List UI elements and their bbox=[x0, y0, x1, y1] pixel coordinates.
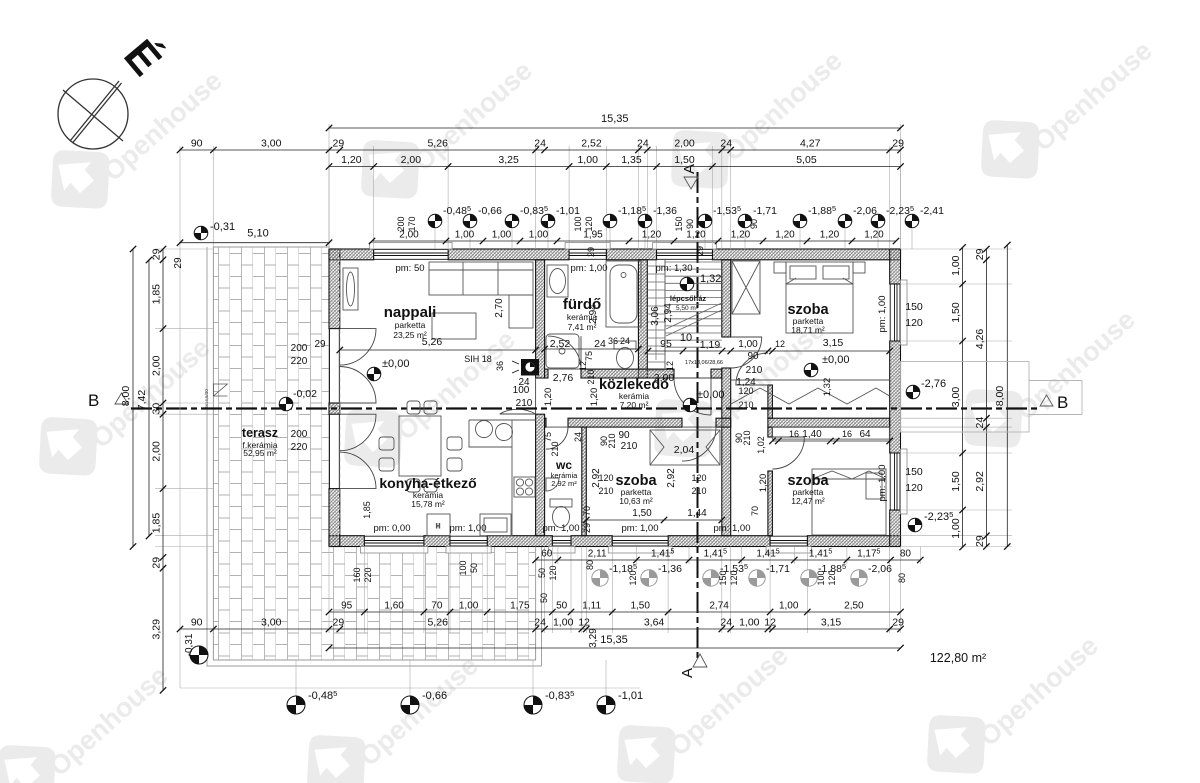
terrace paving area bbox=[213, 247, 535, 660]
svg-text:210: 210 bbox=[607, 433, 617, 448]
dim row bottom openings bbox=[326, 601, 904, 616]
svg-text:24: 24 bbox=[974, 417, 986, 429]
thin wall closet divider szobaT bbox=[768, 385, 773, 418]
level marker nappali bbox=[367, 358, 409, 381]
svg-text:1,00: 1,00 bbox=[529, 230, 549, 241]
svg-text:pm: 1,00: pm: 1,00 bbox=[622, 523, 659, 534]
dining table and chairs bbox=[379, 401, 462, 492]
szoba2 bed bbox=[812, 469, 886, 535]
wall under hallway bbox=[545, 418, 546, 427]
left exterior wall bbox=[329, 249, 340, 329]
marker B right bbox=[1040, 393, 1068, 412]
svg-text:12,47 m²: 12,47 m² bbox=[791, 496, 825, 506]
dim row top small bbox=[369, 230, 899, 245]
svg-text:±0,00: ±0,00 bbox=[697, 389, 724, 401]
furdo bathtub bbox=[606, 261, 641, 327]
svg-text:29: 29 bbox=[892, 617, 904, 629]
section line B-B bbox=[131, 407, 1040, 409]
svg-text:12: 12 bbox=[578, 617, 590, 629]
svg-text:1,50: 1,50 bbox=[950, 471, 962, 492]
svg-text:2,00: 2,00 bbox=[401, 154, 422, 166]
svg-text:5,26: 5,26 bbox=[422, 336, 443, 348]
svg-text:nappali: nappali bbox=[384, 304, 437, 321]
right wall windows bbox=[890, 284, 901, 341]
svg-text:60: 60 bbox=[541, 549, 553, 560]
svg-text:8,00: 8,00 bbox=[994, 386, 1006, 407]
szoba2 closet dims bbox=[769, 429, 893, 444]
svg-text:-1,01: -1,01 bbox=[556, 205, 580, 217]
svg-text:29: 29 bbox=[974, 535, 986, 547]
svg-text:pm: 1,00: pm: 1,00 bbox=[543, 523, 580, 534]
svg-text:±0,00: ±0,00 bbox=[382, 358, 409, 370]
svg-text:1,00: 1,00 bbox=[459, 601, 479, 612]
svg-text:64: 64 bbox=[859, 429, 871, 440]
szoba1 bottom dim line bbox=[583, 517, 725, 523]
svg-text:1,75: 1,75 bbox=[510, 601, 530, 612]
svg-text:1,85: 1,85 bbox=[362, 501, 372, 519]
svg-text:-0,02: -0,02 bbox=[293, 388, 317, 400]
svg-text:-0,835: -0,835 bbox=[545, 689, 574, 702]
svg-text:-2,76: -2,76 bbox=[921, 378, 946, 390]
svg-text:3,06: 3,06 bbox=[650, 306, 661, 326]
svg-text:-0,66: -0,66 bbox=[422, 690, 447, 702]
svg-text:120: 120 bbox=[905, 482, 923, 494]
szobaT bed bbox=[774, 262, 865, 333]
bottom level markers row bbox=[287, 689, 643, 714]
room label furdo bbox=[563, 296, 601, 332]
svg-text:200: 200 bbox=[291, 343, 308, 354]
svg-text:100: 100 bbox=[816, 570, 826, 585]
svg-text:pm: 50: pm: 50 bbox=[395, 263, 424, 274]
left dim col segments bbox=[151, 246, 167, 694]
dim row bottom walls bbox=[177, 617, 904, 633]
svg-text:2,52: 2,52 bbox=[581, 138, 602, 150]
svg-text:210: 210 bbox=[691, 486, 706, 496]
svg-text:90: 90 bbox=[749, 219, 759, 229]
svg-text:50: 50 bbox=[537, 568, 547, 578]
svg-text:220: 220 bbox=[363, 567, 373, 582]
svg-text:3,00: 3,00 bbox=[950, 387, 962, 408]
top window sills bbox=[370, 243, 452, 250]
svg-text:30: 30 bbox=[151, 403, 163, 415]
svg-text:1,00: 1,00 bbox=[455, 230, 475, 241]
svg-text:5,50 m²: 5,50 m² bbox=[676, 305, 699, 312]
svg-text:210: 210 bbox=[516, 398, 533, 409]
stairs dim line bbox=[645, 348, 730, 354]
svg-text:70: 70 bbox=[750, 506, 760, 516]
svg-text:100: 100 bbox=[573, 216, 583, 231]
svg-text:7,42: 7,42 bbox=[136, 390, 148, 411]
svg-text:2,50: 2,50 bbox=[844, 601, 864, 612]
top level markers row bbox=[428, 204, 944, 249]
dashed line left wall inner bbox=[339, 249, 341, 536]
svg-text:90: 90 bbox=[191, 617, 203, 629]
right dim 8,00 bbox=[994, 242, 1011, 550]
svg-text:120: 120 bbox=[584, 216, 594, 231]
svg-text:24: 24 bbox=[620, 336, 630, 346]
svg-text:1,20: 1,20 bbox=[820, 230, 840, 241]
door furdo bbox=[548, 336, 581, 369]
stairs treads bbox=[647, 260, 722, 370]
svg-text:H: H bbox=[436, 524, 440, 530]
svg-text:2,74: 2,74 bbox=[709, 601, 729, 612]
chimney SIH18 bbox=[512, 359, 539, 376]
wall nappali-hall door jamb piece bbox=[536, 414, 545, 536]
svg-text:8,00: 8,00 bbox=[120, 386, 132, 407]
door szobaT bbox=[731, 337, 762, 368]
dim row bottom sills bbox=[532, 549, 923, 564]
svg-text:1,00: 1,00 bbox=[739, 617, 760, 629]
svg-text:100: 100 bbox=[458, 560, 468, 575]
svg-text:2,04: 2,04 bbox=[674, 444, 695, 456]
svg-text:konyha-étkező: konyha-étkező bbox=[379, 475, 476, 491]
svg-text:170: 170 bbox=[407, 216, 417, 231]
svg-text:2,70: 2,70 bbox=[494, 298, 505, 318]
svg-text:70: 70 bbox=[582, 506, 592, 516]
svg-text:-1,01: -1,01 bbox=[618, 690, 643, 702]
svg-text:-0,31: -0,31 bbox=[184, 633, 195, 656]
svg-text:12: 12 bbox=[665, 361, 675, 371]
svg-text:220: 220 bbox=[291, 442, 308, 453]
svg-text:1,35: 1,35 bbox=[621, 154, 642, 166]
svg-text:2,00: 2,00 bbox=[151, 441, 163, 462]
svg-text:-2,235: -2,235 bbox=[924, 510, 953, 523]
svg-text:16: 16 bbox=[789, 429, 799, 439]
svg-text:2,00: 2,00 bbox=[151, 355, 163, 376]
room label szoba2 bbox=[787, 473, 829, 506]
svg-text:120: 120 bbox=[827, 570, 837, 585]
svg-text:12: 12 bbox=[775, 339, 785, 349]
svg-text:1,60: 1,60 bbox=[384, 601, 404, 612]
svg-text:90: 90 bbox=[618, 430, 630, 441]
svg-text:pm: 1,00: pm: 1,00 bbox=[714, 523, 751, 534]
svg-text:1,44: 1,44 bbox=[687, 508, 707, 519]
svg-text:±0,00: ±0,00 bbox=[822, 354, 849, 366]
svg-text:15,35: 15,35 bbox=[601, 113, 629, 125]
svg-text:90: 90 bbox=[191, 138, 203, 150]
room label konyha bbox=[379, 475, 476, 509]
svg-text:29: 29 bbox=[586, 247, 596, 257]
bottom exterior wall bbox=[329, 536, 364, 547]
right dim col windows bbox=[950, 244, 966, 550]
svg-text:29: 29 bbox=[151, 557, 163, 569]
svg-text:150: 150 bbox=[718, 570, 728, 585]
svg-text:-0,485: -0,485 bbox=[308, 689, 337, 702]
top wall windows bbox=[374, 249, 448, 260]
svg-text:210: 210 bbox=[586, 369, 596, 384]
svg-text:A: A bbox=[679, 668, 696, 678]
terrace dim 5,10 bbox=[177, 228, 332, 246]
wall nappali-furdo upper bbox=[536, 260, 545, 378]
svg-text:parketta: parketta bbox=[395, 320, 426, 330]
nappali sofa bbox=[429, 262, 533, 328]
svg-text:210: 210 bbox=[621, 441, 638, 452]
svg-text:24: 24 bbox=[594, 338, 606, 350]
svg-text:3,15: 3,15 bbox=[821, 617, 842, 629]
svg-text:1,20: 1,20 bbox=[589, 388, 600, 407]
top exterior wall bbox=[329, 249, 374, 260]
svg-text:1,20: 1,20 bbox=[864, 230, 884, 241]
thin wall wc-szoba1 bbox=[582, 427, 587, 536]
svg-text:wc: wc bbox=[555, 458, 572, 472]
svg-text:3,29: 3,29 bbox=[151, 619, 163, 640]
svg-text:-1,885: -1,885 bbox=[808, 204, 836, 217]
svg-text:50: 50 bbox=[539, 593, 549, 603]
svg-text:5,26: 5,26 bbox=[427, 138, 448, 150]
svg-text:29: 29 bbox=[173, 257, 184, 269]
svg-text:-1,36: -1,36 bbox=[658, 563, 682, 575]
room label szoba1 bbox=[615, 473, 657, 506]
svg-text:75: 75 bbox=[584, 351, 594, 361]
bottom window sills bbox=[360, 547, 428, 554]
svg-text:24: 24 bbox=[534, 138, 546, 150]
svg-text:3,15: 3,15 bbox=[823, 337, 844, 349]
svg-text:200: 200 bbox=[396, 216, 406, 231]
svg-text:1,50: 1,50 bbox=[630, 601, 650, 612]
svg-text:120: 120 bbox=[729, 570, 739, 585]
section line A-A bbox=[697, 172, 699, 660]
room label szobaT bbox=[787, 302, 829, 335]
left wall door thresholds bbox=[330, 329, 340, 403]
svg-text:2x14,5/30: 2x14,5/30 bbox=[204, 389, 209, 409]
terrace french door lower bbox=[340, 414, 376, 488]
svg-text:17x18,06/28,66: 17x18,06/28,66 bbox=[685, 360, 723, 366]
svg-text:1,00: 1,00 bbox=[950, 518, 962, 539]
terrace step at B axis bbox=[213, 384, 227, 396]
svg-text:1,00: 1,00 bbox=[738, 339, 758, 350]
wall under furdo and stairs bbox=[545, 369, 548, 378]
svg-text:1,85: 1,85 bbox=[151, 513, 163, 534]
svg-text:24: 24 bbox=[720, 138, 732, 150]
svg-text:95: 95 bbox=[660, 338, 672, 350]
svg-text:24: 24 bbox=[720, 617, 732, 629]
svg-text:90: 90 bbox=[685, 219, 695, 229]
svg-text:2,94: 2,94 bbox=[663, 303, 674, 323]
svg-text:120: 120 bbox=[691, 473, 706, 483]
overall dim 15,35 top bbox=[326, 113, 904, 131]
svg-text:3,00: 3,00 bbox=[261, 138, 282, 150]
svg-text:1,20: 1,20 bbox=[775, 230, 795, 241]
svg-text:3,25: 3,25 bbox=[498, 154, 519, 166]
svg-text:52,95 m²: 52,95 m² bbox=[243, 448, 277, 458]
svg-text:4,26: 4,26 bbox=[974, 329, 986, 350]
level marker stairs bbox=[680, 277, 694, 291]
nappali coffee table bbox=[432, 313, 476, 339]
svg-text:80: 80 bbox=[585, 560, 595, 570]
svg-text:210: 210 bbox=[742, 430, 752, 445]
nappali radiator bbox=[343, 268, 358, 310]
svg-text:80: 80 bbox=[900, 549, 912, 560]
right window sills bbox=[901, 280, 908, 345]
svg-text:24: 24 bbox=[573, 432, 583, 442]
svg-text:pm: 1,00: pm: 1,00 bbox=[450, 523, 487, 534]
svg-text:16: 16 bbox=[842, 429, 852, 439]
svg-text:1,85: 1,85 bbox=[151, 284, 163, 305]
furdo shower bbox=[546, 334, 579, 368]
svg-text:5,26: 5,26 bbox=[427, 617, 448, 629]
svg-text:-2,06: -2,06 bbox=[853, 205, 877, 217]
svg-text:29: 29 bbox=[582, 523, 592, 533]
svg-text:pm: 1,00: pm: 1,00 bbox=[877, 465, 888, 502]
svg-text:1,32: 1,32 bbox=[822, 378, 833, 397]
right exterior wall bbox=[890, 249, 901, 284]
svg-text:1,32: 1,32 bbox=[700, 273, 721, 285]
furdo dim line bbox=[541, 346, 641, 352]
right level -2,23 bbox=[908, 510, 953, 532]
svg-text:210: 210 bbox=[550, 441, 560, 456]
svg-text:70: 70 bbox=[431, 601, 443, 612]
terrace french door upper bbox=[340, 329, 376, 403]
door szoba2 bbox=[772, 437, 804, 469]
svg-text:36: 36 bbox=[495, 361, 505, 371]
left dim 7,42 bbox=[136, 257, 152, 539]
svg-text:210: 210 bbox=[738, 400, 753, 410]
svg-text:-1,535: -1,535 bbox=[713, 204, 741, 217]
svg-text:122,80 m²: 122,80 m² bbox=[930, 651, 986, 665]
svg-text:-0,31: -0,31 bbox=[210, 221, 235, 233]
svg-text:pm: 1,00: pm: 1,00 bbox=[571, 263, 608, 274]
svg-text:29: 29 bbox=[892, 138, 904, 150]
svg-text:18,71 m²: 18,71 m² bbox=[791, 325, 825, 335]
bottom mid level markers bbox=[592, 562, 892, 586]
bottom wall windows bbox=[364, 536, 424, 547]
marker A bottom bbox=[679, 654, 707, 678]
svg-text:10,63 m²: 10,63 m² bbox=[619, 496, 653, 506]
svg-text:90: 90 bbox=[747, 351, 759, 362]
wall lepcso-szobaT bbox=[722, 260, 731, 337]
svg-text:-1,71: -1,71 bbox=[753, 205, 777, 217]
svg-text:1,20: 1,20 bbox=[642, 230, 662, 241]
svg-text:1,00: 1,00 bbox=[779, 601, 799, 612]
svg-text:12: 12 bbox=[764, 617, 776, 629]
right level -2,76 bbox=[906, 378, 946, 399]
wall furdo-lepcso bbox=[638, 260, 647, 378]
svg-text:1,50: 1,50 bbox=[950, 302, 962, 323]
kitchen appliances bottom bbox=[427, 514, 511, 536]
svg-text:24: 24 bbox=[534, 617, 546, 629]
svg-text:2,92: 2,92 bbox=[974, 471, 986, 492]
terrace outer offset edge bbox=[207, 247, 542, 666]
svg-text:24: 24 bbox=[637, 138, 649, 150]
szoba1 wardrobe bbox=[650, 430, 720, 465]
svg-text:pm: 0,00: pm: 0,00 bbox=[374, 523, 411, 534]
svg-text:5,05: 5,05 bbox=[796, 154, 817, 166]
svg-text:29: 29 bbox=[333, 617, 345, 629]
svg-text:80: 80 bbox=[897, 573, 907, 583]
svg-text:50: 50 bbox=[556, 601, 568, 612]
svg-text:220: 220 bbox=[291, 356, 308, 367]
svg-text:1,00: 1,00 bbox=[950, 255, 962, 276]
svg-text:B: B bbox=[1057, 393, 1068, 412]
svg-text:200: 200 bbox=[291, 429, 308, 440]
svg-text:150: 150 bbox=[905, 301, 923, 313]
svg-text:36: 36 bbox=[608, 336, 618, 346]
right dim col walls bbox=[974, 246, 990, 550]
kitchen counter bbox=[469, 420, 536, 536]
bay rectangle right bbox=[901, 362, 1083, 433]
svg-text:1,20: 1,20 bbox=[686, 230, 706, 241]
svg-text:29: 29 bbox=[314, 339, 326, 350]
svg-text:1,20: 1,20 bbox=[543, 388, 554, 407]
svg-text:160: 160 bbox=[352, 567, 362, 582]
svg-text:95: 95 bbox=[341, 601, 353, 612]
door nappali-hallway bbox=[500, 378, 536, 414]
svg-text:-1,71: -1,71 bbox=[766, 563, 790, 575]
bottom left level marker bbox=[184, 633, 208, 664]
svg-text:2,92: 2,92 bbox=[666, 468, 677, 488]
door szoba1 bbox=[682, 427, 716, 461]
svg-text:pm: 1,00: pm: 1,00 bbox=[877, 296, 888, 333]
svg-text:150: 150 bbox=[905, 466, 923, 478]
svg-text:1,00: 1,00 bbox=[492, 230, 512, 241]
svg-text:terasz: terasz bbox=[242, 426, 278, 440]
furdo toilet bbox=[614, 341, 636, 369]
svg-text:SIH 18: SIH 18 bbox=[464, 354, 492, 364]
svg-text:10: 10 bbox=[680, 332, 692, 344]
marker B left bbox=[88, 391, 128, 410]
wc corner basin bbox=[546, 478, 559, 491]
wc toilet bbox=[550, 499, 572, 528]
svg-text:1,20: 1,20 bbox=[731, 230, 751, 241]
szobaT bottom dims bbox=[728, 337, 893, 354]
svg-text:29: 29 bbox=[333, 138, 345, 150]
svg-text:1,20: 1,20 bbox=[758, 474, 769, 493]
svg-text:210: 210 bbox=[598, 486, 613, 496]
szobaT wardrobe bbox=[732, 261, 760, 314]
svg-text:lépcsőház: lépcsőház bbox=[670, 294, 707, 303]
svg-text:2,76: 2,76 bbox=[553, 372, 574, 384]
svg-text:3,64: 3,64 bbox=[644, 617, 665, 629]
left dim 8,00 bbox=[120, 246, 136, 550]
svg-text:7,20 m²: 7,20 m² bbox=[620, 400, 649, 410]
svg-text:2,94: 2,94 bbox=[588, 304, 599, 324]
svg-text:120: 120 bbox=[628, 570, 638, 585]
svg-text:50: 50 bbox=[469, 563, 479, 573]
north arrow compass bbox=[58, 79, 128, 149]
svg-text:120: 120 bbox=[905, 317, 923, 329]
svg-text:4,27: 4,27 bbox=[800, 138, 821, 150]
overall dim 15,35 bottom bbox=[326, 634, 904, 651]
svg-text:120: 120 bbox=[738, 386, 753, 396]
svg-text:1,19: 1,19 bbox=[700, 339, 721, 351]
svg-text:3,29: 3,29 bbox=[588, 628, 599, 648]
svg-text:150: 150 bbox=[674, 216, 684, 231]
svg-text:5,10: 5,10 bbox=[247, 228, 268, 240]
svg-text:pm: 1,30: pm: 1,30 bbox=[656, 263, 693, 274]
svg-text:1,11: 1,11 bbox=[582, 601, 601, 612]
level marker szobaT bbox=[804, 354, 849, 377]
svg-text:-2,41: -2,41 bbox=[920, 205, 944, 217]
svg-text:75: 75 bbox=[543, 432, 553, 442]
dim row top walls bbox=[177, 138, 904, 154]
szoba2 closet bbox=[772, 427, 889, 439]
nappali width dim bbox=[337, 336, 539, 353]
dim row top openings bbox=[326, 154, 904, 170]
svg-text:2,52: 2,52 bbox=[550, 338, 571, 350]
svg-text:210: 210 bbox=[746, 365, 763, 376]
szobaT closet rail bbox=[731, 380, 890, 404]
svg-text:-1,36: -1,36 bbox=[653, 205, 677, 217]
svg-text:2,92 m²: 2,92 m² bbox=[551, 479, 577, 488]
marker A top bbox=[681, 164, 698, 189]
room label terasz bbox=[242, 426, 278, 458]
svg-text:-0,66: -0,66 bbox=[478, 205, 502, 217]
svg-text:1,00: 1,00 bbox=[553, 617, 574, 629]
room label kozlekedo bbox=[599, 377, 669, 410]
door stairs bbox=[674, 378, 711, 415]
svg-text:120: 120 bbox=[548, 565, 558, 580]
svg-text:1,00: 1,00 bbox=[577, 154, 598, 166]
